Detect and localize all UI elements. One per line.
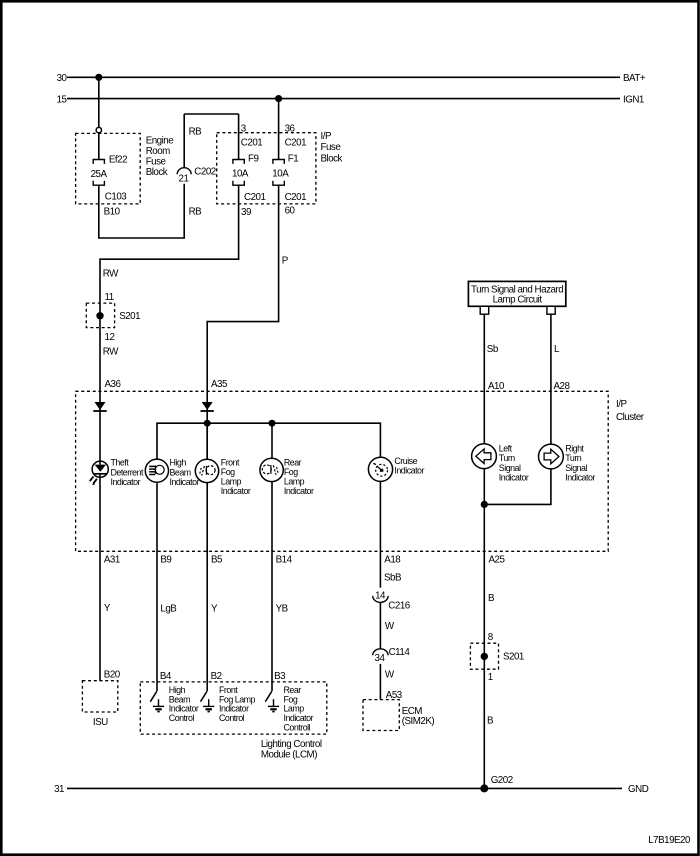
node turn signal junction xyxy=(481,501,488,508)
splice S201 lower dot xyxy=(481,653,488,660)
svg-text:L7B19E20: L7B19E20 xyxy=(648,835,691,846)
svg-text:Indicator: Indicator xyxy=(499,472,529,482)
connector C114 xyxy=(373,649,388,656)
svg-text:I/P: I/P xyxy=(616,399,627,410)
node bus rear fog xyxy=(269,420,276,427)
splice S201 lower box xyxy=(470,643,498,669)
svg-text:W: W xyxy=(385,670,395,681)
svg-text:A35: A35 xyxy=(211,379,228,390)
wire A25 xyxy=(483,469,485,789)
svg-text:High: High xyxy=(170,458,187,468)
svg-text:Sb: Sb xyxy=(487,344,499,355)
svg-text:B: B xyxy=(488,593,495,604)
svg-text:Turn: Turn xyxy=(565,453,581,463)
svg-text:Front: Front xyxy=(221,457,240,467)
wire IGN1 rail 15 xyxy=(67,98,620,100)
svg-text:Lamp: Lamp xyxy=(284,476,305,486)
wire IGN1 to F1 xyxy=(278,99,280,160)
svg-text:Lamp: Lamp xyxy=(221,476,242,486)
wire B5 xyxy=(206,483,208,682)
lamp high beam indicator xyxy=(145,459,168,482)
svg-text:C201: C201 xyxy=(241,137,262,148)
ground high beam control xyxy=(153,699,164,711)
svg-text:W: W xyxy=(385,621,395,632)
switch B2 front fog control xyxy=(201,682,208,702)
svg-text:Cruise: Cruise xyxy=(394,456,417,466)
svg-text:G202: G202 xyxy=(491,775,513,786)
svg-text:C201: C201 xyxy=(244,192,265,203)
wire from BAT+ to Ef22 xyxy=(98,77,100,127)
lamp left turn signal indicator xyxy=(472,444,497,469)
I/P cluster box xyxy=(76,391,609,551)
svg-text:Block: Block xyxy=(321,153,343,164)
wire A36 to LED xyxy=(99,391,101,465)
connector tab left xyxy=(480,306,489,314)
svg-text:60: 60 xyxy=(285,205,296,216)
svg-text:(SIM2K): (SIM2K) xyxy=(402,716,435,727)
svg-text:ISU: ISU xyxy=(93,717,108,728)
splice S201 upper box xyxy=(86,303,114,328)
turn signal and hazard lamp circuit box xyxy=(468,281,565,306)
svg-text:C201: C201 xyxy=(285,192,306,203)
svg-text:B2: B2 xyxy=(211,671,222,682)
svg-text:Indicator: Indicator xyxy=(170,477,200,487)
svg-text:Engine: Engine xyxy=(146,135,175,146)
svg-text:Left: Left xyxy=(499,444,513,454)
wire C216 to C114 xyxy=(379,602,381,649)
svg-text:34: 34 xyxy=(375,653,386,664)
svg-text:C202: C202 xyxy=(194,167,215,178)
LCM box xyxy=(140,682,326,734)
svg-text:8: 8 xyxy=(488,632,494,643)
svg-text:A18: A18 xyxy=(384,554,401,565)
svg-text:11: 11 xyxy=(105,292,114,303)
LED theft deterrent indicator xyxy=(90,461,109,485)
svg-text:B4: B4 xyxy=(160,671,172,682)
svg-text:Y: Y xyxy=(104,603,111,614)
svg-text:C103: C103 xyxy=(105,191,127,202)
diode A35 xyxy=(201,402,214,411)
svg-text:L: L xyxy=(554,344,560,355)
svg-text:BAT+: BAT+ xyxy=(623,73,646,84)
svg-text:B20: B20 xyxy=(104,669,121,680)
wire F1 output to A35 xyxy=(207,185,278,391)
svg-text:F9: F9 xyxy=(248,153,258,164)
svg-text:39: 39 xyxy=(241,207,251,218)
wire A31 xyxy=(99,474,101,681)
svg-text:A25: A25 xyxy=(489,554,506,565)
svg-text:Indicator: Indicator xyxy=(111,477,141,487)
svg-text:Fog: Fog xyxy=(284,467,298,477)
wire A18 xyxy=(379,481,381,587)
wire Sb xyxy=(483,314,485,444)
connector C216 xyxy=(373,596,388,603)
wire S201 to A36 xyxy=(99,328,101,392)
wire C114 to ECM xyxy=(379,664,381,700)
splice S201 dot xyxy=(96,312,103,319)
svg-text:Room: Room xyxy=(146,146,170,157)
svg-text:LgB: LgB xyxy=(160,603,177,614)
svg-text:10A: 10A xyxy=(232,168,249,179)
wire L xyxy=(550,314,552,444)
switch B3 rear fog control xyxy=(265,682,272,702)
engine room fuse block box xyxy=(76,133,141,204)
svg-text:B: B xyxy=(487,715,494,726)
node BAT+ junction xyxy=(95,74,102,81)
switch B4 high beam control xyxy=(150,682,157,702)
connector C202 arc xyxy=(177,168,191,175)
wire indicator bus xyxy=(157,423,380,459)
svg-text:B9: B9 xyxy=(160,554,171,565)
svg-text:Indicator: Indicator xyxy=(565,472,595,482)
svg-text:1: 1 xyxy=(488,672,493,683)
ground front fog control xyxy=(203,699,214,711)
lamp rear fog indicator xyxy=(260,458,283,481)
node IGN1 junction xyxy=(275,95,282,102)
svg-text:25A: 25A xyxy=(91,169,108,180)
svg-text:Controll: Controll xyxy=(284,723,311,733)
svg-text:B3: B3 xyxy=(274,671,286,682)
svg-text:RW: RW xyxy=(103,269,119,280)
ECM box xyxy=(363,700,399,731)
ground rear fog control xyxy=(268,699,279,711)
wire bus to rear fog lamp xyxy=(271,423,273,458)
svg-text:Block: Block xyxy=(146,167,168,178)
svg-text:A10: A10 xyxy=(488,381,505,392)
wire BAT+ rail 30 xyxy=(67,76,620,78)
svg-text:Turn: Turn xyxy=(499,453,515,463)
wire B14 xyxy=(271,482,273,682)
svg-text:C201: C201 xyxy=(285,137,306,148)
svg-text:C114: C114 xyxy=(389,647,411,658)
svg-text:Fuse: Fuse xyxy=(146,157,167,168)
fuse F9 10A xyxy=(233,160,244,186)
svg-text:31: 31 xyxy=(54,784,64,795)
svg-text:A28: A28 xyxy=(554,381,571,392)
svg-text:B14: B14 xyxy=(276,554,293,565)
svg-text:Cluster: Cluster xyxy=(616,412,645,423)
fuse Ef22 25A xyxy=(93,160,104,186)
wire GND rail 31 xyxy=(67,787,622,789)
svg-text:Beam: Beam xyxy=(170,467,191,477)
svg-text:YB: YB xyxy=(276,603,289,614)
svg-text:Indicator: Indicator xyxy=(284,486,314,496)
diode A36 xyxy=(93,402,106,411)
lamp right turn signal indicator xyxy=(539,444,564,469)
svg-text:Indicator: Indicator xyxy=(394,466,424,476)
wire A35 to bus xyxy=(206,391,208,460)
svg-text:Signal: Signal xyxy=(499,463,521,473)
wire RB riser xyxy=(183,114,185,168)
svg-text:GND: GND xyxy=(628,784,649,795)
svg-text:Lamp Circuit: Lamp Circuit xyxy=(493,294,543,305)
svg-text:10A: 10A xyxy=(272,168,289,179)
svg-text:Signal: Signal xyxy=(565,463,587,473)
wire horizontal to F9 xyxy=(184,113,238,115)
wire B9 xyxy=(156,482,158,682)
svg-text:S201: S201 xyxy=(503,652,524,663)
svg-text:B10: B10 xyxy=(104,206,121,217)
ISU box xyxy=(82,681,117,712)
wire B10 jog to C202 xyxy=(99,184,184,238)
I/P fuse block box xyxy=(217,133,316,204)
svg-text:Theft: Theft xyxy=(111,458,130,468)
svg-text:21: 21 xyxy=(179,174,189,185)
wire F9 output to S201 xyxy=(100,185,239,327)
svg-text:30: 30 xyxy=(57,73,68,84)
wire xyxy=(98,133,100,160)
svg-text:Ef22: Ef22 xyxy=(109,154,127,165)
connector ring above Ef22 xyxy=(96,127,101,132)
fuse F1 10A xyxy=(273,160,284,186)
wire down to F9 xyxy=(238,114,240,159)
connector tab right xyxy=(547,306,555,314)
svg-text:IGN1: IGN1 xyxy=(623,94,644,105)
svg-text:RW: RW xyxy=(103,347,119,358)
wire bus to front fog lamp xyxy=(206,423,208,459)
svg-text:A36: A36 xyxy=(105,379,122,390)
svg-text:Deterrent: Deterrent xyxy=(111,467,145,477)
node bus front fog xyxy=(204,420,211,427)
svg-text:RB: RB xyxy=(189,126,203,137)
lamp front fog indicator xyxy=(195,459,218,482)
svg-text:Fog: Fog xyxy=(221,467,235,477)
svg-text:B5: B5 xyxy=(211,554,223,565)
svg-text:Rear: Rear xyxy=(284,457,302,467)
svg-text:Module (LCM): Module (LCM) xyxy=(261,749,317,760)
svg-text:Fuse: Fuse xyxy=(321,142,342,153)
svg-text:Right: Right xyxy=(565,444,584,454)
wire right turn to junction xyxy=(484,469,551,505)
svg-text:Control: Control xyxy=(169,713,195,723)
svg-text:P: P xyxy=(282,256,289,267)
svg-text:14: 14 xyxy=(375,590,386,601)
svg-text:C216: C216 xyxy=(388,600,410,611)
svg-text:RB: RB xyxy=(189,206,203,217)
svg-text:I/P: I/P xyxy=(321,131,332,142)
svg-text:F1: F1 xyxy=(288,153,298,164)
svg-text:Indicator: Indicator xyxy=(221,486,251,496)
svg-text:12: 12 xyxy=(105,332,115,343)
svg-text:15: 15 xyxy=(57,94,68,105)
svg-text:Y: Y xyxy=(211,603,218,614)
lamp cruise indicator xyxy=(368,457,392,481)
svg-text:S201: S201 xyxy=(119,311,140,322)
svg-text:36: 36 xyxy=(285,123,296,134)
svg-text:SbB: SbB xyxy=(384,572,402,583)
svg-text:A31: A31 xyxy=(104,554,120,565)
node G202 xyxy=(480,784,488,792)
svg-text:Control: Control xyxy=(219,713,245,723)
